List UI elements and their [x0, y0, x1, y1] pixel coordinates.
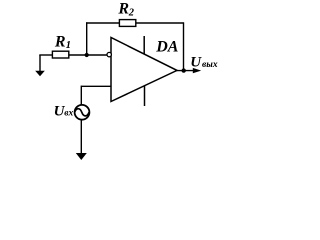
svg-text:DA: DA [155, 39, 179, 56]
wire [81, 85, 111, 87]
pin stub bottom [144, 86, 146, 106]
resistor R1 [52, 51, 68, 58]
svg-text:R: R [54, 33, 66, 50]
svg-text:2: 2 [128, 8, 135, 19]
svg-text:вых: вых [202, 60, 218, 70]
pin stub top [143, 36, 145, 54]
wire [136, 22, 184, 24]
wire output [177, 70, 195, 72]
svg-text:U: U [190, 54, 202, 70]
source Uvx [75, 105, 90, 120]
node output junction [182, 68, 186, 72]
svg-text:R: R [117, 1, 129, 18]
wire [80, 86, 82, 105]
op-amp U1 [111, 38, 177, 102]
ground [35, 55, 45, 76]
wire [183, 22, 185, 70]
wire [39, 54, 52, 56]
wire [86, 22, 88, 55]
resistor R2 [119, 20, 135, 27]
wire [86, 22, 120, 24]
output arrow [193, 68, 201, 73]
svg-text:вх: вх [64, 109, 73, 119]
node junction input [85, 53, 89, 57]
wire [80, 120, 82, 155]
inverting input bubble [107, 52, 111, 56]
wire [69, 54, 108, 56]
ground [76, 153, 87, 160]
svg-text:1: 1 [66, 40, 71, 51]
